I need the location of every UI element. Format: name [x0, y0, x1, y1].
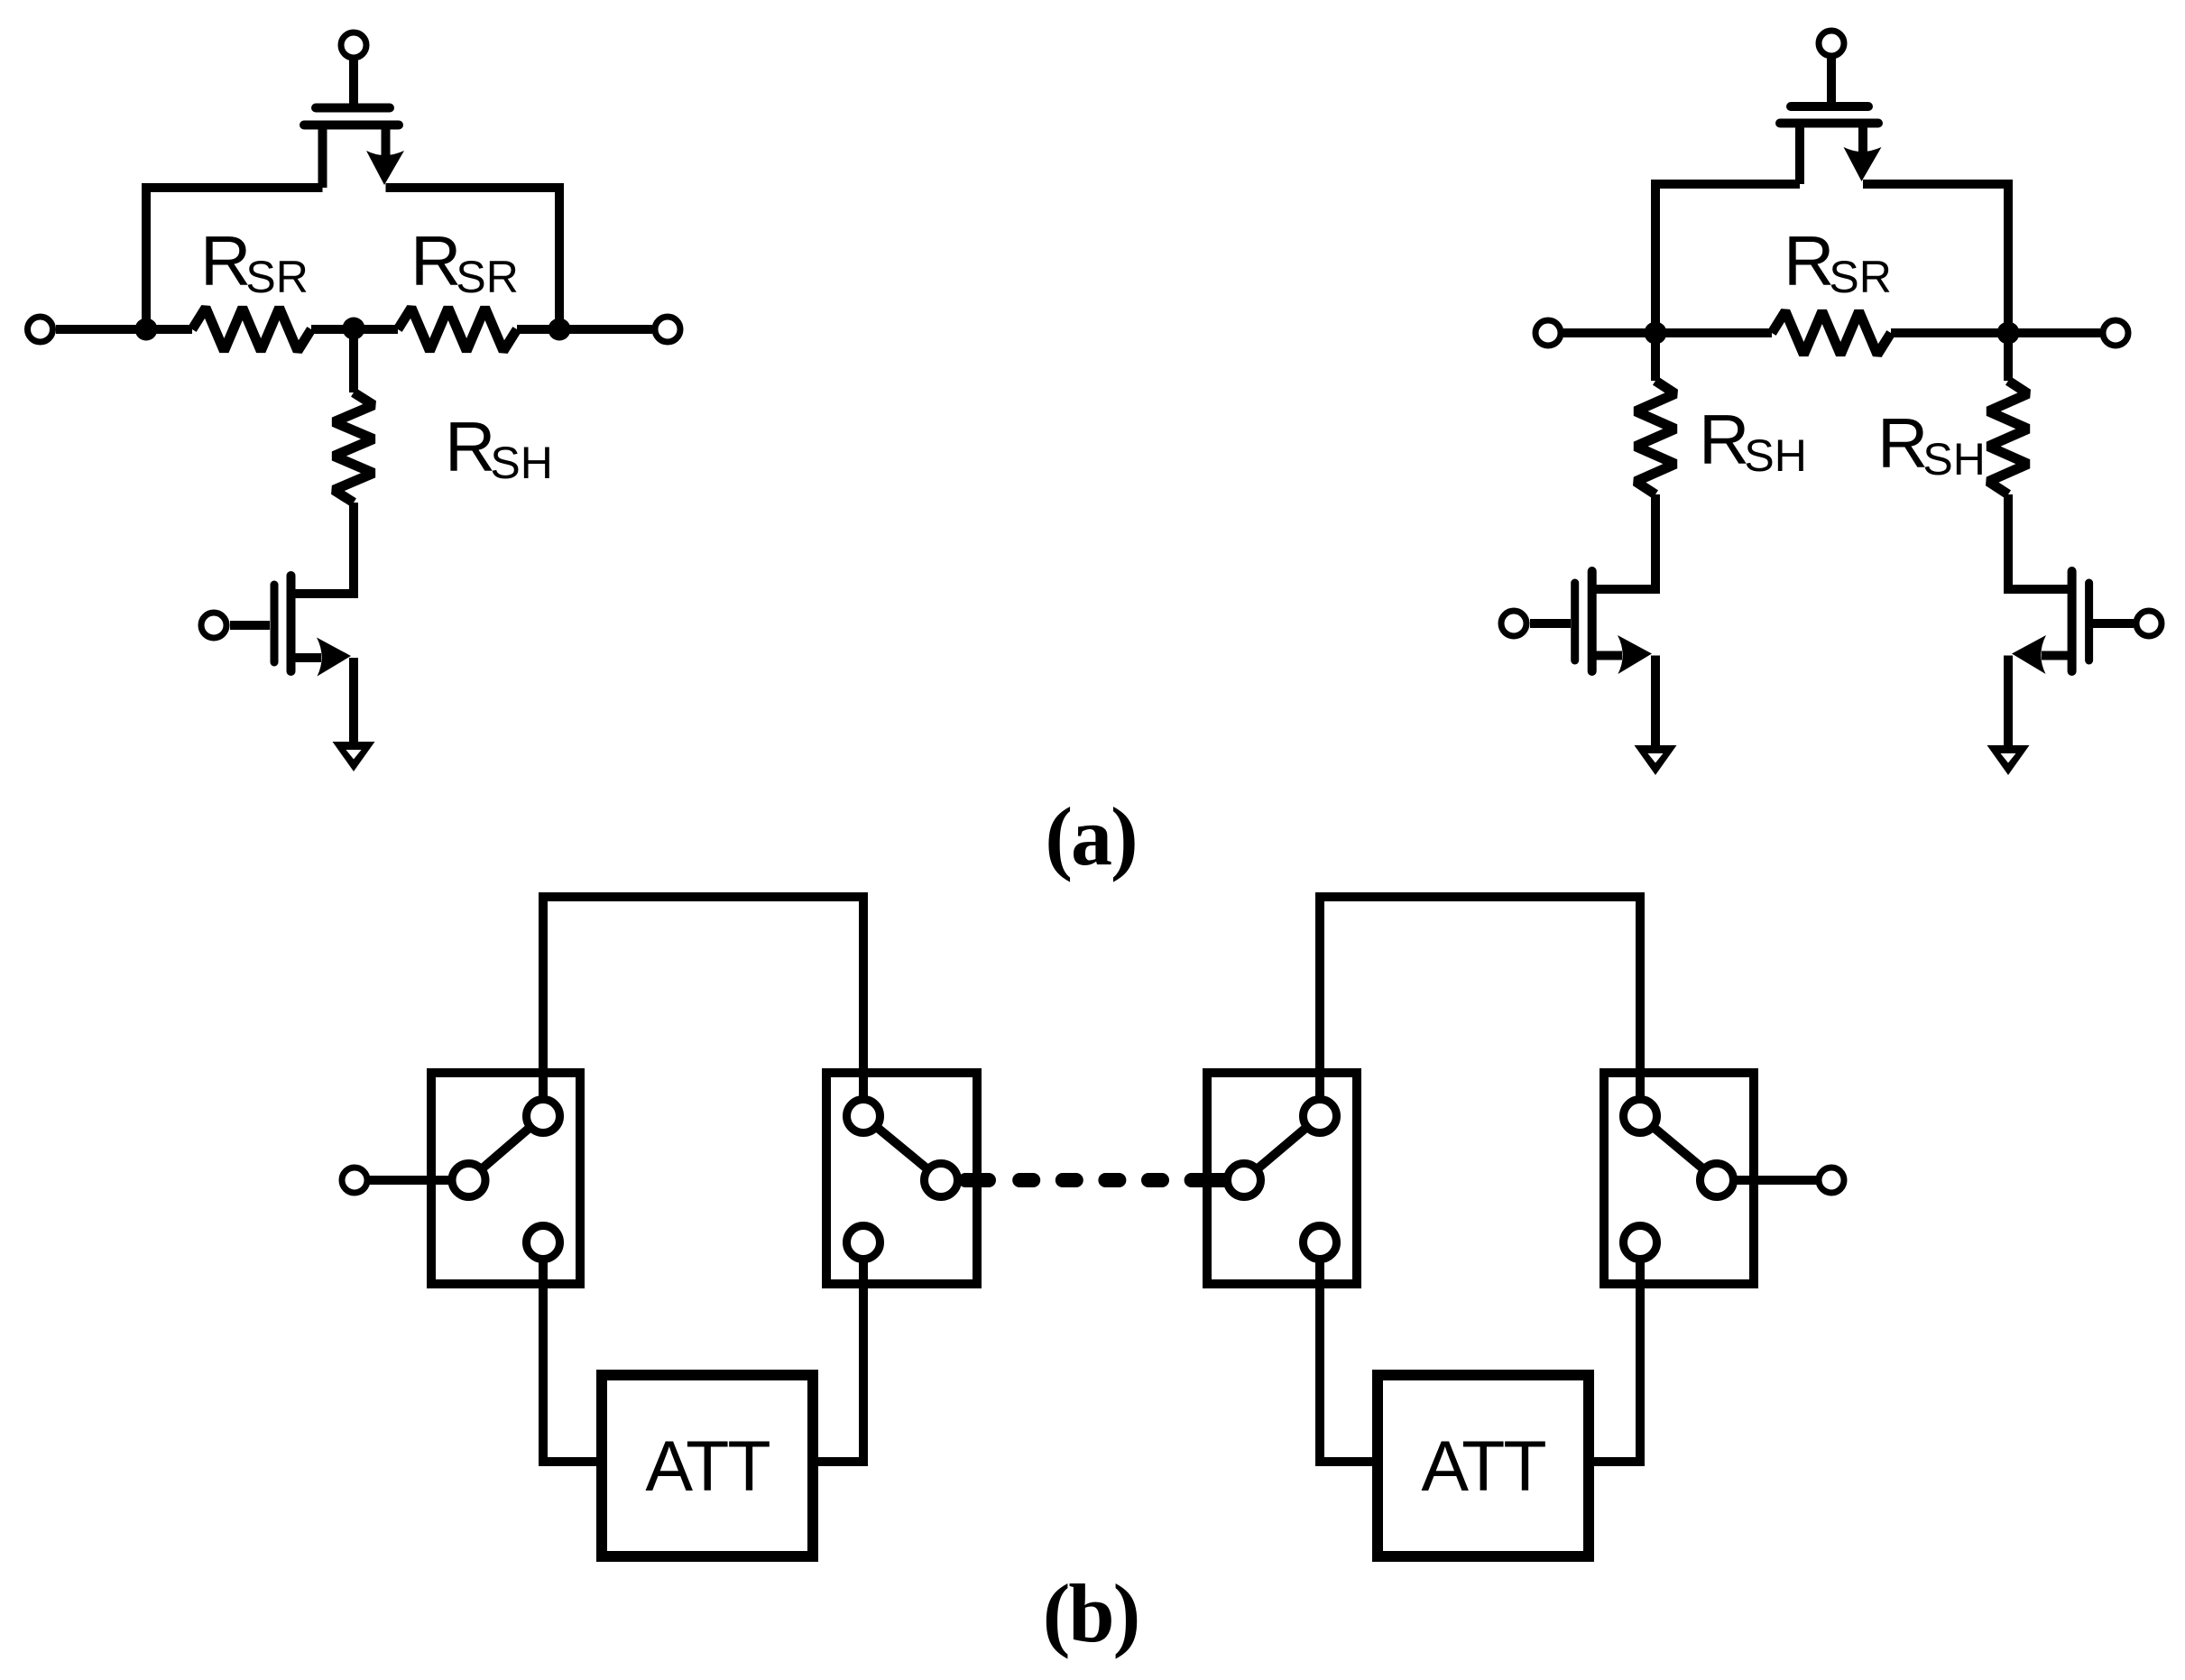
svg-text:(a): (a) [1045, 790, 1136, 882]
svg-text:RSH: RSH [445, 407, 553, 488]
switch SW4 throw top [1624, 1100, 1657, 1133]
terminal: output port (right cell) [2103, 320, 2128, 346]
terminal: control port top (left cell) [341, 32, 366, 58]
wire: shunt resistor to NMOS drain [295, 503, 354, 594]
transistor M4 NMOS shunt switch left [1530, 571, 1655, 745]
transistor M1 PMOS bypass switch [304, 108, 404, 189]
wire: bridge right segment [386, 188, 560, 329]
svg-text:RSR: RSR [200, 221, 309, 302]
terminal: chain output [1819, 1168, 1844, 1193]
wire: dashed inter-stage link [1019, 1173, 1207, 1187]
resistor R_SR (right cell) [1772, 311, 1891, 355]
wire: rail left part [1563, 328, 1772, 337]
wire: bridge left (right cell) [1655, 184, 1800, 333]
terminal: control port top (right cell) [1819, 31, 1844, 56]
svg-text:RSR: RSR [1784, 221, 1892, 302]
switch SW2 box [826, 1073, 977, 1284]
switch SW1 throw top [527, 1100, 560, 1133]
terminal: gate control port M2 [201, 613, 226, 638]
switch SW2 throw top [847, 1100, 880, 1133]
svg-text:RSR: RSR [410, 221, 519, 302]
svg-text:ATT: ATT [645, 1426, 770, 1506]
transistor M5 NMOS shunt switch right (mirrored) [2008, 571, 2134, 745]
wire: right node to shunt [2004, 333, 2013, 381]
switch SW3 pole contact [1228, 1164, 1261, 1197]
wire: SW2 to ATT1 [813, 1242, 863, 1462]
junction node right (right cell) [1997, 322, 2020, 345]
switch SW3 arm [1244, 1116, 1320, 1180]
junction node center [343, 318, 365, 340]
attenuator block ATT2 [1378, 1375, 1589, 1556]
resistor R_SH left shunt [1636, 381, 1675, 494]
switch SW2 arm [863, 1116, 941, 1180]
wire: bypass link right pair [1320, 897, 1640, 1116]
wire: bridge right (right cell) [1863, 184, 2008, 333]
transistor M2 NMOS shunt switch [230, 576, 354, 742]
wire: output lead [1717, 1176, 1819, 1185]
switch SW1 arm [469, 1116, 544, 1180]
switch SW4 box [1604, 1073, 1754, 1284]
terminal: chain input [342, 1168, 367, 1193]
ground symbol M4 [1635, 745, 1677, 775]
switch SW1 box [431, 1073, 580, 1284]
switch SW3 box [1207, 1073, 1357, 1284]
wire: center node to shunt resistor [349, 329, 358, 392]
junction node right [549, 318, 571, 341]
switch SW4 arm [1640, 1116, 1717, 1180]
switch SW4 throw bottom [1624, 1226, 1657, 1260]
switch SW2 pole contact [925, 1164, 958, 1197]
wire: SW3 pole stub [1205, 1173, 1227, 1187]
wire: SW1 to ATT1 [543, 1242, 602, 1462]
wire: shunt to M5 drain [2008, 494, 2068, 589]
terminal: gate control port M4 [1501, 611, 1526, 636]
wire: rail right [517, 325, 652, 334]
switch SW1 throw bottom [527, 1226, 560, 1260]
wire: gate stem right [1827, 56, 1836, 104]
wire: rail mid [311, 325, 398, 334]
wire: bypass link left pair [543, 897, 863, 1116]
wire: left node to shunt [1651, 333, 1660, 381]
resistor R_SH shunt [334, 392, 373, 503]
transistor M3 PMOS bypass switch [1780, 106, 1882, 184]
terminal: output port (left cell) [655, 317, 680, 342]
ground symbol (left cell) [333, 742, 375, 771]
wire: SW2 pole stub [965, 1173, 989, 1187]
wire: SW3 to ATT2 [1320, 1242, 1378, 1462]
ground symbol M5 [1987, 745, 2030, 775]
terminal: input port (left cell) [28, 317, 53, 342]
switch SW3 throw bottom [1304, 1226, 1337, 1260]
resistor R_SR (right) [398, 308, 517, 351]
wire: rail right part [1891, 328, 2100, 337]
switch SW2 throw bottom [847, 1226, 880, 1260]
switch SW4 pole contact [1701, 1164, 1734, 1197]
svg-text:ATT: ATT [1421, 1426, 1545, 1506]
terminal: gate control port M5 [2136, 611, 2162, 636]
wire: shunt to M4 drain [1596, 494, 1655, 589]
resistor R_SR (left) [192, 308, 311, 351]
wire: SW4 to ATT2 [1589, 1242, 1640, 1462]
junction node left (right cell) [1645, 322, 1667, 345]
wire: rail left [56, 325, 192, 334]
wire: gate stem [349, 58, 358, 106]
svg-text:RSH: RSH [1699, 400, 1807, 481]
junction node left [135, 318, 158, 341]
terminal: input port (right cell) [1535, 320, 1561, 346]
attenuator block ATT1 [602, 1375, 813, 1556]
wire: bridge left segment [146, 188, 323, 329]
svg-text:RSH: RSH [1877, 403, 1986, 485]
svg-text:(b): (b) [1043, 1567, 1139, 1659]
switch SW3 throw top [1304, 1100, 1337, 1133]
switch SW1 pole contact [452, 1164, 485, 1197]
resistor R_SH right shunt [1988, 381, 2028, 494]
wire: input lead [367, 1176, 468, 1185]
